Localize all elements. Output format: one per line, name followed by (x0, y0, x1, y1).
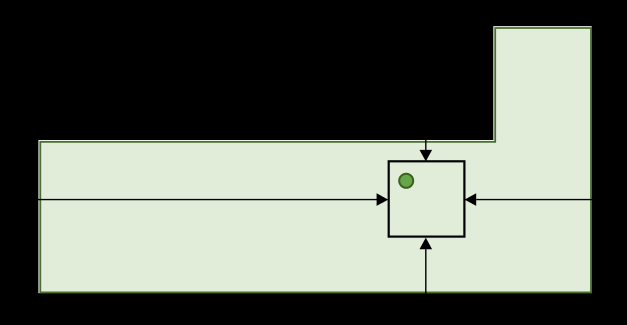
node: L-shaped free-space region halo (40, 27, 591, 291)
wire: right arrow line (476, 199, 605, 201)
wire: top arrow line (425, 110, 427, 151)
wire: bottom arrow line (425, 249, 427, 325)
wire: left arrow line (22, 199, 377, 201)
arrowhead: right arrow pointing left (465, 193, 477, 206)
arrowhead: bottom arrow pointing up (420, 238, 433, 250)
node: cell box (389, 161, 465, 236)
node: L-shaped free-space region (40, 28, 591, 292)
arrowhead: left arrow pointing right (377, 193, 389, 206)
node: agent circle (399, 174, 413, 188)
arrowhead: top arrow pointing down (420, 150, 433, 162)
